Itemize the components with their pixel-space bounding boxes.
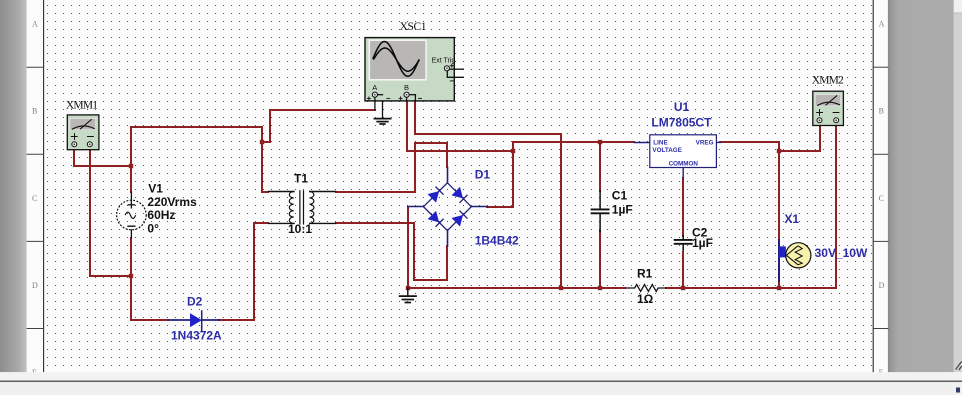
wire net0 ground rail to R1 left lead [408, 287, 625, 289]
wire net4 T1 secondary bottom to D1 bridge AC input bottom [336, 223, 447, 280]
svg-text:LM7805CT: LM7805CT [651, 116, 712, 130]
multimeter XMM2 [813, 91, 844, 125]
ground symbol oscilloscope A minus [374, 101, 390, 124]
junction node rail / X1 lamp bottom [777, 286, 781, 290]
wire net1 V1 top up and right to T1 primary top [131, 127, 268, 192]
junction node rail / C2 bottom [681, 286, 685, 290]
wire net5 branch down to C1 top [599, 142, 601, 191]
junction node V1 top / XMM1 plus [129, 164, 133, 168]
svg-text:COMMON: COMMON [669, 160, 699, 167]
svg-text:D: D [879, 281, 885, 290]
capacitor C1 [592, 191, 609, 231]
svg-text:A: A [372, 83, 377, 92]
svg-text:A: A [879, 20, 885, 29]
svg-text:B: B [404, 83, 409, 92]
oscilloscope XSC1 [365, 38, 463, 110]
multimeter XMM1 [67, 115, 99, 150]
wire net5 DC plus vertical and left to D1 bridge plus output [487, 142, 513, 207]
wire net8 U1 common pin down to C2 top [682, 178, 684, 236]
svg-text:XSC1: XSC1 [400, 21, 427, 33]
diode D2 [169, 311, 220, 330]
svg-text:T1: T1 [294, 172, 308, 186]
svg-text:220Vrms: 220Vrms [147, 195, 197, 209]
svg-text:C: C [879, 194, 884, 203]
wire net2 D2 cathode right and up to T1 primary bottom [219, 223, 268, 320]
svg-text:60Hz: 60Hz [147, 208, 175, 222]
wire net1 branch to oscilloscope A plus input [262, 110, 375, 142]
wire net5 oscilloscope B plus down-right to DC plus node [407, 101, 513, 151]
svg-text:10:1: 10:1 [288, 222, 312, 236]
transformer T1 [269, 191, 336, 224]
svg-text:1µF: 1µF [692, 236, 713, 250]
svg-text:1Ω: 1Ω [637, 292, 654, 306]
svg-text:D2: D2 [187, 294, 203, 308]
svg-text:B: B [879, 107, 884, 116]
wire net1 XMM1 plus terminal down-right to V1 top node [74, 146, 131, 166]
junction node C1 top tap on U1 input line [598, 140, 602, 144]
svg-text:U1: U1 [674, 100, 690, 114]
ground symbol main circuit [400, 288, 416, 303]
wire net6 X1 lamp bottom pin to ground rail [778, 280, 780, 288]
junction node ground rail at ground symbol [406, 286, 410, 290]
svg-text:X1: X1 [784, 212, 799, 226]
svg-text:Ext Trig: Ext Trig [432, 57, 456, 64]
wire net0 oscilloscope B minus right-down to ground rail [415, 101, 561, 288]
svg-text:C1: C1 [612, 189, 628, 203]
AC power source V1 [117, 192, 147, 238]
junction node DC plus / scope B [511, 149, 515, 153]
voltage regulator U1 LM7805CT [635, 135, 721, 179]
svg-text:D: D [32, 281, 38, 290]
wire net0 C2 bottom to rail [682, 252, 684, 288]
svg-text:0°: 0° [147, 221, 159, 235]
svg-text:D1: D1 [475, 168, 491, 182]
svg-text:1B4B42: 1B4B42 [475, 233, 519, 247]
svg-text:XMM2: XMM2 [812, 74, 844, 86]
wire net7 down to X1 lamp top pin [778, 151, 780, 241]
junction node V1 bottom / XMM1 minus [129, 274, 133, 278]
svg-text:VOLTAGE: VOLTAGE [652, 147, 682, 154]
bridge rectifier D1 [408, 167, 487, 246]
wire net0 C1 bottom down to ground rail [599, 231, 601, 288]
svg-text:LINE: LINE [653, 140, 667, 147]
wire net0 D1 bridge minus output down to ground [407, 207, 409, 288]
svg-text:A: A [32, 20, 38, 29]
svg-text:1µF: 1µF [612, 203, 633, 217]
wire net5 DC plus to U1 input pin [513, 141, 634, 143]
wire net6 R1 right lead along rail and up to XMM2 minus [666, 122, 836, 288]
svg-text:XMM1: XMM1 [66, 99, 98, 111]
svg-text:R1: R1 [637, 266, 653, 280]
junction node ground rail / C1 bottom [598, 286, 602, 290]
junction node U1 output / XMM2 / lamp [777, 149, 781, 153]
junction node ground rail / scope B minus drop [559, 286, 563, 290]
junction node net1 branch to oscilloscope channel A [260, 140, 264, 144]
svg-text:30V_10W: 30V_10W [815, 246, 868, 260]
svg-text:1N4372A: 1N4372A [171, 329, 222, 343]
wire net2 XMM1 minus terminal down-right to V1 bottom node [90, 146, 131, 276]
capacitor C2 [675, 236, 692, 253]
resistor R1 [625, 285, 666, 292]
svg-text:VREG: VREG [696, 140, 714, 147]
svg-text:V1: V1 [148, 181, 163, 195]
wire net2 V1 bottom down to D2 anode [131, 238, 168, 320]
wire net3 T1 secondary top to D1 bridge AC input top [336, 143, 447, 192]
svg-text:B: B [32, 107, 37, 116]
wire net7 branch right-up to XMM2 plus terminal [779, 122, 820, 151]
wire net7 U1 output right and down to lamp node [721, 142, 779, 151]
lamp X1 [779, 240, 811, 281]
svg-text:C: C [32, 194, 37, 203]
